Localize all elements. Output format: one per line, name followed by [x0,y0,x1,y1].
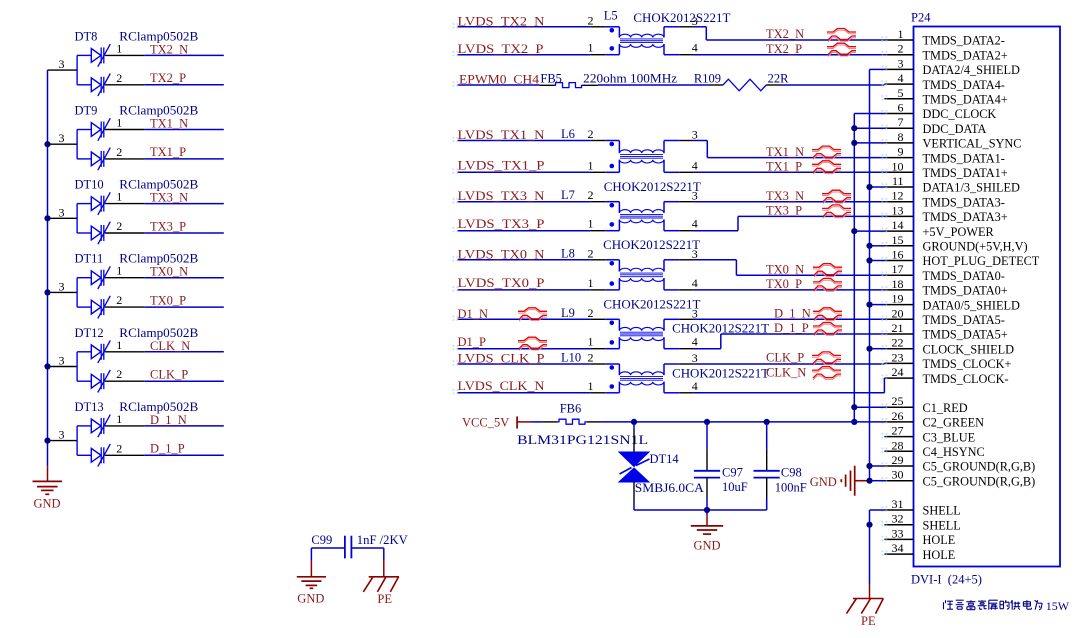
svg-text:FB6: FB6 [560,402,582,416]
svg-text:CHOK2012S221T: CHOK2012S221T [633,11,730,25]
svg-text:DDC_CLOCK: DDC_CLOCK [923,107,997,121]
svg-text:TMDS_DATA5+: TMDS_DATA5+ [923,328,1008,342]
diff pair marker D_1_P [813,323,842,336]
pin 10 TMDS_DATA1+ [882,159,1008,180]
wire VCC_5V to FB6 [531,421,543,423]
net label TX1_N [766,145,804,159]
svg-text:C4_HSYNC: C4_HSYNC [923,445,985,459]
wire FB5 to R109 [598,84,709,86]
net label LVDS_TX0_N [458,247,545,261]
diff pair marker TX0_N [813,264,842,277]
ground GND (C99) [297,577,326,606]
wire LVDS_TX0_P [458,289,591,291]
diff pair marker TX3_P [822,205,851,218]
svg-text:3: 3 [59,279,65,293]
svg-text:3: 3 [59,428,65,442]
pin 28 C4_HSYNC [882,438,985,459]
svg-text:1: 1 [116,264,122,278]
svg-text:DT12: DT12 [75,326,104,340]
svg-text:TMDS_DATA2-: TMDS_DATA2- [923,34,1005,48]
pin 12 TMDS_DATA3- [882,189,1005,210]
diff pair marker D_1_N [813,308,842,321]
wire TX2_N [145,54,224,56]
svg-text:TMDS_DATA2+: TMDS_DATA2+ [923,48,1008,62]
svg-text:D_1_N: D_1_N [150,413,187,427]
svg-text:TX1_N: TX1_N [766,145,804,159]
svg-text:28: 28 [892,438,904,452]
pin 19 DATA0/5_SHIELD [882,292,1021,313]
svg-text:1nF /2KV: 1nF /2KV [357,533,408,547]
net label CLK_N [766,365,806,379]
wire TX2_P (choke L5 pin4 to P24 pin2) [694,54,885,56]
junction ground rail / GND stem [704,507,710,513]
diode array DT12 RClamp0502B [48,326,199,393]
wire ground rail (DT14/C97/C98) [634,509,767,511]
capacitor C97 10uF [694,422,748,510]
svg-text:SHELL: SHELL [923,518,961,532]
earth PE (bottom right) [847,599,884,629]
svg-text:TX0_P: TX0_P [766,277,802,291]
net label TX0_N [766,262,804,276]
pin 7 DDC_DATA [882,115,987,136]
svg-text:1: 1 [116,190,122,204]
svg-text:GND: GND [34,497,61,511]
svg-text:TX3_N: TX3_N [150,191,188,205]
svg-text:TMDS_CLOCK+: TMDS_CLOCK+ [923,357,1012,371]
svg-text:27: 27 [892,424,904,438]
svg-text:1: 1 [116,116,122,130]
svg-text:TX3_N: TX3_N [766,189,804,203]
svg-text:4: 4 [692,276,698,290]
net label TX3_N [150,191,188,205]
svg-text:TX3_P: TX3_P [150,219,186,233]
svg-text:33: 33 [892,526,904,540]
svg-text:DVI-I (24+5): DVI-I (24+5) [911,573,982,587]
wire CLK_N (choke L10 pin4 to P24 pin24) [694,378,885,393]
wire C99 to GND [311,548,345,577]
ground GND (left) [33,481,63,510]
net label TX1_P [150,145,186,159]
junction +5V bus pin 14 [851,228,857,234]
choke L10 CHOK2012S221T [561,351,769,393]
power port VCC_5V [462,416,531,430]
svg-text:1: 1 [588,41,594,55]
net label LVDS_TX3_P [458,217,545,231]
net label LVDS_TX1_N [458,128,545,142]
pin 11 DATA1/3_SHILED [882,174,1021,195]
wire TX0_N (choke L8 pin3 to P24 pin17) [694,260,885,275]
svg-text:TX2_N: TX2_N [766,27,804,41]
svg-text:CHOK2012S221T: CHOK2012S221T [603,238,700,252]
junction +5V bus pin 25 [851,404,857,410]
pin 30 C5_GROUND(R,G,B) [882,468,1036,489]
svg-text:5: 5 [898,86,904,100]
svg-text:PE: PE [377,592,392,606]
junction GND bus pin 11 [866,184,872,190]
wire TX0_N [145,277,224,279]
wire LVDS_TX3_P [458,230,591,232]
wire TX3_P (choke L7 pin4 to P24 pin13) [694,216,885,230]
svg-text:D1_P: D1_P [458,335,487,349]
svg-text:15W: 15W [1046,599,1070,613]
pin 6 DDC_CLOCK [882,101,997,122]
junction +5V bus pin 7 [851,125,857,131]
svg-text:TX2_P: TX2_P [150,71,186,85]
svg-text:C99: C99 [311,533,332,547]
pin 16 HOT_PLUG_DETECT [882,248,1040,269]
svg-text:CLK_P: CLK_P [150,368,188,382]
svg-text:13: 13 [892,203,904,217]
svg-text:DATA0/5_SHIELD: DATA0/5_SHIELD [923,298,1021,312]
diode array DT10 RClamp0502B [48,178,199,245]
svg-text:3: 3 [898,56,904,70]
svg-text:LVDS_CLK_N: LVDS_CLK_N [458,379,545,393]
svg-text:DT9: DT9 [75,104,98,118]
svg-text:C1_RED: C1_RED [923,401,968,415]
svg-text:1: 1 [588,335,594,349]
svg-text:GROUND(+5V,H,V): GROUND(+5V,H,V) [923,240,1028,254]
wire CLK_N [145,351,224,353]
svg-text:17: 17 [892,262,904,276]
svg-text:TX1_P: TX1_P [150,145,186,159]
ferrite bead FB6 BLM31PG121SN1L [517,402,648,448]
pin 25 C1_RED [882,394,968,415]
svg-text:R109: R109 [694,72,721,86]
junction +5V rail / DT14 [631,419,637,425]
svg-text:7: 7 [898,115,904,129]
wire D1_N [458,318,591,320]
svg-text:2: 2 [116,71,122,85]
net label CLK_P [150,368,188,382]
svg-text:RClamp0502B: RClamp0502B [119,326,198,340]
pin 13 TMDS_DATA3+ [882,203,1008,224]
svg-text:2: 2 [588,188,594,202]
svg-text:TX2_P: TX2_P [766,42,802,56]
junction [44,289,50,295]
wire LVDS_TX1_P [458,171,591,173]
wire CLK_P (choke L10 pin3 to P24 pin23) [694,363,885,365]
diff pair marker TX1_P [812,161,841,174]
svg-text:4: 4 [692,379,698,393]
svg-text:CHOK2012S221T: CHOK2012S221T [603,297,700,311]
wire TX3_P [145,232,224,234]
svg-text:1: 1 [588,379,594,393]
svg-text:1: 1 [588,276,594,290]
svg-text:3: 3 [59,354,65,368]
svg-text:LVDS_TX0_P: LVDS_TX0_P [458,276,545,290]
junction GND bus pin 15 [866,243,872,249]
diff pair marker TX2_P [827,43,856,56]
svg-text:TX3_P: TX3_P [766,204,802,218]
pin 20 TMDS_DATA5- [882,306,1005,327]
wire TX1_N [145,129,224,131]
label DVI-I (24+5) [911,573,982,587]
pin 27 C3_BLUE [882,424,976,445]
wire D_1_N [145,425,224,427]
wire LVDS_CLK_N [458,392,591,394]
net label D_1_P [150,442,185,456]
net label TX3_P [766,204,802,218]
diode array DT9 RClamp0502B [48,104,199,171]
pin 32 SHELL [882,512,961,533]
pin 1 TMDS_DATA2- [882,27,1005,48]
svg-text:10: 10 [892,159,904,173]
wire GND bus (left TVS common) [47,70,49,481]
svg-text:3: 3 [692,351,698,365]
pin 29 C5_GROUND(R,G,B) [882,453,1036,474]
svg-text:TMDS_DATA1+: TMDS_DATA1+ [923,166,1008,180]
svg-text:TX0_P: TX0_P [150,293,186,307]
svg-text:1: 1 [898,27,904,41]
wire TX3_N [145,203,224,205]
svg-text:CLK_N: CLK_N [150,339,190,353]
wire +5V rail (FB6 to P24 pin26) [601,421,884,423]
svg-text:22R: 22R [768,72,790,86]
junction [44,141,50,147]
svg-text:12: 12 [892,189,904,203]
svg-text:SMBJ6.0CA: SMBJ6.0CA [635,481,704,495]
wire SHELL bus (pins 31,32) to PE [870,510,885,599]
svg-text:GND: GND [297,592,324,606]
svg-text:25: 25 [892,394,904,408]
svg-text:3: 3 [692,128,698,142]
svg-text:CLK_P: CLK_P [766,351,804,365]
svg-text:C97: C97 [722,466,743,480]
svg-text:C5_GROUND(R,G,B): C5_GROUND(R,G,B) [923,460,1036,474]
wire D_1_P [145,454,224,456]
net label LVDS_CLK_N [458,379,545,393]
svg-text:LVDS_TX2_P: LVDS_TX2_P [458,42,544,56]
pin 14 +5V_POWER [882,218,995,239]
svg-text:1: 1 [116,338,122,352]
svg-text:SHELL: SHELL [923,504,961,518]
net label D_1_N [774,307,811,321]
svg-text:TMDS_DATA3-: TMDS_DATA3- [923,195,1005,209]
pin 24 TMDS_CLOCK- [882,365,1009,386]
svg-text:C2_GREEN: C2_GREEN [923,416,985,430]
wire +5V bus (pins 6,7,8,14,25,26) [854,114,884,422]
net label LVDS_TX1_P [458,159,545,173]
svg-text:1: 1 [116,41,122,55]
pin 31 SHELL [882,497,961,518]
junction [44,363,50,369]
svg-text:15: 15 [892,233,904,247]
svg-text:2: 2 [588,127,594,141]
wire TX2_N (choke L5 pin3 to P24 pin1) [694,27,885,40]
svg-text:16: 16 [892,248,904,262]
net label LVDS_TX3_N [458,189,545,203]
svg-text:+5V_POWER: +5V_POWER [923,225,995,239]
svg-text:2: 2 [588,246,594,260]
pin 18 TMDS_DATA0+ [882,277,1008,298]
svg-text:LVDS_TX3_N: LVDS_TX3_N [458,189,545,203]
svg-text:D_1_N: D_1_N [774,307,811,321]
svg-text:TX1_N: TX1_N [150,117,188,131]
junction +5V rail / C97 [704,419,710,425]
pin 17 TMDS_DATA0- [882,262,1005,283]
net label LVDS_TX2_P [458,42,544,56]
net label TX2_P [150,71,186,85]
wire D_1_N (choke L9 pin3 to P24 pin20) [694,318,885,320]
svg-text:TMDS_DATA1-: TMDS_DATA1- [923,151,1005,165]
svg-text:HOT_PLUG_DETECT: HOT_PLUG_DETECT [923,254,1040,268]
svg-text:TMDS_DATA3+: TMDS_DATA3+ [923,210,1008,224]
junction [44,215,50,221]
svg-text:3: 3 [59,57,65,71]
svg-text:L5: L5 [604,9,618,23]
svg-text:RClamp0502B: RClamp0502B [119,104,198,118]
svg-text:3: 3 [692,306,698,320]
svg-text:FB5: FB5 [540,72,562,86]
net label D1_P [458,335,487,349]
svg-text:2: 2 [116,145,122,159]
svg-text:RClamp0502B: RClamp0502B [119,29,198,43]
junction [44,438,50,444]
svg-text:2: 2 [116,219,122,233]
junction GND bus pin 22 [866,346,872,352]
svg-text:2: 2 [116,367,122,381]
pin 5 TMDS_DATA4+ [882,86,1008,107]
svg-text:TMDS_DATA4+: TMDS_DATA4+ [923,93,1008,107]
wire CLK_P [145,380,224,382]
svg-text:C3_BLUE: C3_BLUE [923,430,976,444]
pin 15 GROUND(+5V,H,V) [882,233,1028,254]
svg-text:VERTICAL_SYNC: VERTICAL_SYNC [923,137,1022,151]
net label TX1_N [150,117,188,131]
svg-text:TX0_N: TX0_N [150,265,188,279]
pin 26 C2_GREEN [882,409,985,430]
diode array DT8 RClamp0502B [48,29,199,96]
svg-text:GND: GND [810,475,837,489]
net label TX0_N [150,265,188,279]
svg-text:14: 14 [892,218,904,232]
svg-text:21: 21 [892,321,904,335]
svg-text:TMDS_DATA4-: TMDS_DATA4- [923,78,1005,92]
svg-text:LVDS_TX2_N: LVDS_TX2_N [458,14,545,28]
net label TX2_P [766,42,802,56]
svg-text:CHOK2012S221T: CHOK2012S221T [672,366,769,380]
junction +5V bus / FB6 rail [851,419,857,425]
svg-text:1: 1 [588,158,594,172]
pin 3 DATA2/4_SHIELD [882,56,1021,77]
svg-text:HOLE: HOLE [923,533,956,547]
svg-text:2: 2 [116,293,122,307]
svg-text:24: 24 [892,365,904,379]
svg-text:34: 34 [892,541,904,555]
svg-text:TX0_N: TX0_N [766,262,804,276]
earth PE (C99) [363,577,399,606]
svg-text:DT14: DT14 [650,452,680,466]
pin 2 TMDS_DATA2+ [882,42,1008,63]
pin 34 HOLE [882,541,956,562]
svg-text:DT13: DT13 [75,400,104,414]
net label TX3_P [150,219,186,233]
svg-text:22: 22 [892,336,904,350]
svg-text:4: 4 [692,335,698,349]
wire TX1_N (choke L6 pin3 to P24 pin9) [694,141,885,158]
svg-text:2: 2 [588,306,594,320]
svg-text:C98: C98 [781,466,802,480]
svg-text:DATA2/4_SHIELD: DATA2/4_SHIELD [923,63,1021,77]
net label TX0_P [150,293,186,307]
wire R109 to P24 pin4 [781,84,885,86]
svg-text:VCC_5V: VCC_5V [462,416,509,430]
net label TX1_P [766,160,802,174]
ferrite bead FB5 220ohm 100MHz [540,72,678,88]
junction GND bus pin 30 [866,478,872,484]
svg-text:GND: GND [694,539,721,553]
svg-text:TX1_P: TX1_P [766,160,802,174]
svg-text:TX2_N: TX2_N [150,42,188,56]
wire D_1_P (choke L9 pin4 to P24 pin21) [694,334,885,349]
svg-text:6: 6 [898,101,904,115]
svg-text:RClamp0502B: RClamp0502B [119,178,198,192]
svg-text:4: 4 [692,41,698,55]
svg-text:BLM31PG121SN1L: BLM31PG121SN1L [517,433,648,447]
diff pair marker TX0_P [813,278,842,291]
svg-text:2: 2 [898,42,904,56]
wire TX1_P [145,158,224,160]
svg-text:L8: L8 [561,246,575,260]
svg-text:P24: P24 [911,11,931,25]
svg-text:32: 32 [892,512,904,526]
choke L9 CHOK2012S221T [561,306,769,349]
svg-text:30: 30 [892,468,904,482]
diode array DT11 RClamp0502B [48,252,199,319]
net label EPWM0_CH4 [459,73,540,87]
junction GND bus pin 16 [866,257,872,263]
wire TX3_N (choke L7 pin3 to P24 pin12) [694,201,885,203]
pin 22 CLOCK_SHIELD [882,336,1015,357]
svg-text:TMDS_DATA0+: TMDS_DATA0+ [923,284,1008,298]
wire LVDS_TX2_N [458,26,591,28]
svg-text:HOLE: HOLE [923,548,956,562]
net label LVDS_TX0_P [458,276,545,290]
choke L7 CHOK2012S221T [561,188,700,252]
net label D_1_N [150,413,187,427]
wire TX0_P (choke L8 pin4 to P24 pin18) [694,289,885,291]
svg-text:4: 4 [692,217,698,231]
choke L5 CHOK2012S221T [588,9,731,55]
svg-text:1: 1 [116,412,122,426]
net label TX2_N [766,27,804,41]
wire LVDS_TX0_N [458,259,591,261]
wire D1_P [458,348,591,350]
svg-text:PE: PE [861,614,876,628]
diode array DT13 RClamp0502B [48,400,199,467]
svg-text:29: 29 [892,453,904,467]
svg-text:20: 20 [892,306,904,320]
net label TX2_N [150,42,188,56]
ground GND (power port at pin 30) [810,466,867,496]
diff pair marker CLK_N [812,367,841,380]
capacitor C99 1nF/2KV [311,533,407,558]
wire EPWM0_CH4 [458,84,540,86]
svg-text:23: 23 [892,350,904,364]
svg-text:D_1_P: D_1_P [774,321,809,335]
svg-text:2: 2 [588,351,594,365]
note text (Chinese): power for high-brightness screen is 15W [944,599,1070,613]
wire TX1_P (choke L6 pin4 to P24 pin10) [694,171,885,173]
junction +5V rail / C98 [764,419,770,425]
svg-text:DT10: DT10 [75,178,104,192]
svg-text:L10: L10 [561,351,581,365]
junction +5V bus pin 8 [851,140,857,146]
svg-text:8: 8 [898,130,904,144]
svg-text:LVDS_TX3_P: LVDS_TX3_P [458,217,545,231]
svg-text:LVDS_TX1_N: LVDS_TX1_N [458,128,545,142]
svg-text:C5_GROUND(R,G,B): C5_GROUND(R,G,B) [923,474,1036,488]
